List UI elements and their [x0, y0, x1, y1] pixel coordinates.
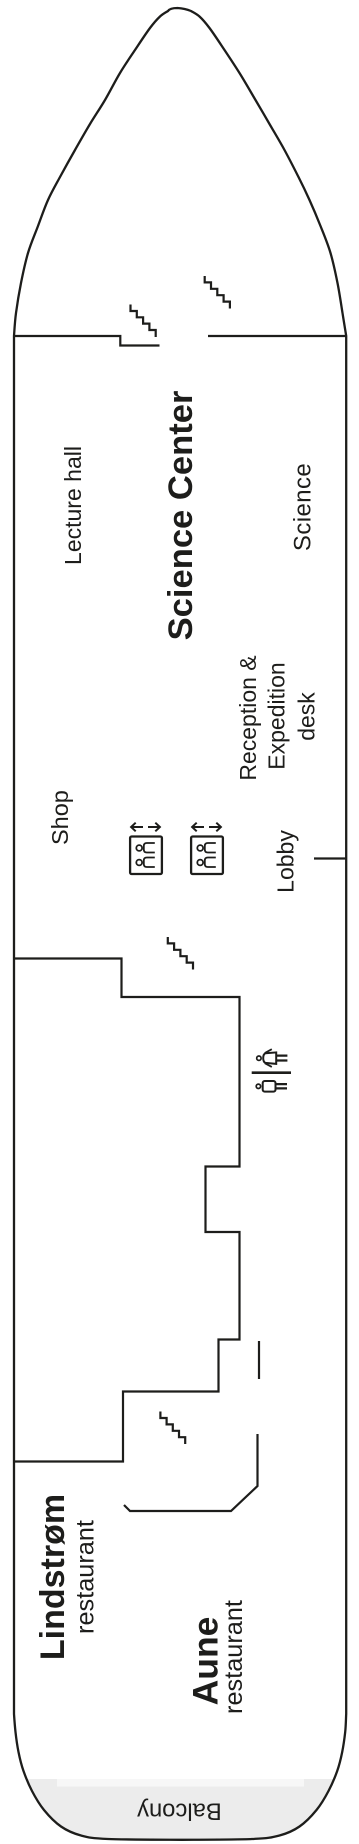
- WC icons: [252, 1049, 291, 1091]
- bow deck wall right: [208, 335, 347, 337]
- svg-text:Science: Science: [290, 463, 317, 551]
- man icon: [256, 1084, 260, 1088]
- svg-text:desk: desk: [294, 692, 320, 741]
- svg-text:Balcony: Balcony: [137, 1798, 222, 1825]
- stairs S1 bow left: [131, 305, 156, 338]
- woman icon: [257, 1056, 261, 1060]
- bow deck wall left: [13, 336, 160, 346]
- balcony deck fill: [10, 1779, 350, 1843]
- svg-text:Science Center: Science Center: [162, 391, 200, 641]
- svg-text:Reception &: Reception &: [235, 655, 261, 780]
- svg-text:Lobby: Lobby: [272, 830, 298, 893]
- elevator E2: [191, 823, 223, 874]
- door dash: [258, 1341, 260, 1379]
- WC divider: [252, 1071, 291, 1074]
- svg-text:Shop: Shop: [47, 790, 73, 845]
- svg-text:restaurant: restaurant: [220, 1600, 248, 1714]
- label Reception & Expedition desk: [235, 655, 319, 780]
- main interior wall: [13, 959, 240, 1462]
- elevator E1: [130, 823, 162, 874]
- svg-text:Lecture hall: Lecture hall: [60, 446, 86, 565]
- stairs S3 mid: [168, 937, 193, 970]
- stairs S4 lower: [160, 1412, 185, 1445]
- stairs S2 bow right: [205, 276, 230, 309]
- svg-text:Expedition: Expedition: [263, 662, 289, 769]
- svg-text:restaurant: restaurant: [72, 1520, 100, 1634]
- svg-text:Lindstrøm: Lindstrøm: [34, 1494, 72, 1660]
- lobby wall tick: [314, 857, 347, 859]
- angled wall: [124, 1434, 258, 1511]
